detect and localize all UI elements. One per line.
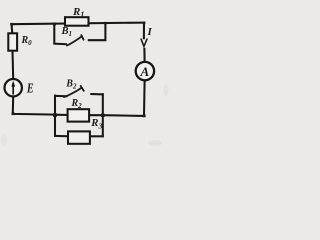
svg-text:I: I xyxy=(147,26,153,38)
svg-text:A: A xyxy=(139,64,149,79)
svg-text:E: E xyxy=(26,81,34,96)
